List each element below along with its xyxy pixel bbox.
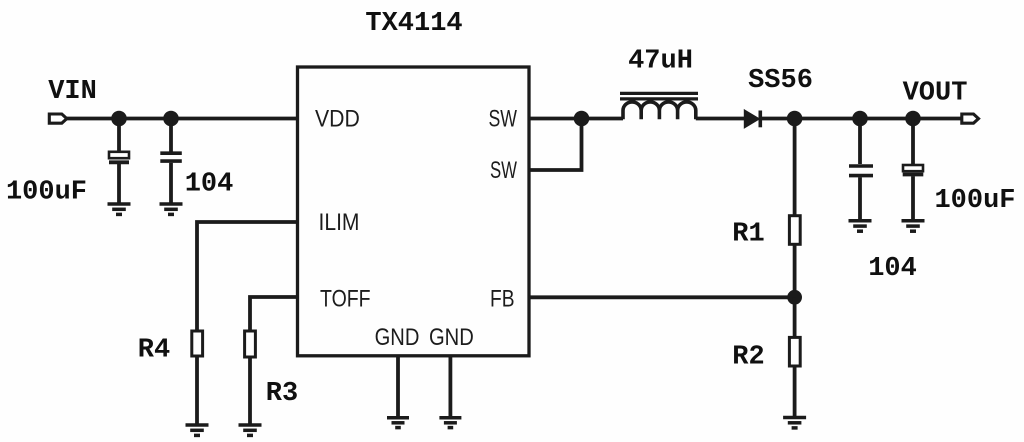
wire C4 to ground	[911, 176, 915, 219]
node SW rail junction	[574, 111, 590, 127]
svg-text:R4: R4	[138, 336, 170, 366]
wire TOFF pin to corner	[250, 297, 298, 331]
wire C3 tap down	[858, 119, 862, 165]
pin label TOFF	[320, 285, 371, 312]
ground (C3)	[849, 221, 872, 231]
svg-text:GND: GND	[375, 324, 420, 351]
pin label FB	[490, 285, 515, 312]
resistor R3	[245, 331, 256, 357]
ground (C1)	[108, 204, 131, 214]
diode D1 SS56	[745, 111, 761, 128]
connector VOUT terminal	[962, 114, 979, 123]
svg-text:47uH: 47uH	[628, 47, 693, 77]
pin label VDD	[315, 105, 360, 132]
node FB junction	[787, 290, 802, 305]
svg-text:104: 104	[868, 254, 917, 284]
wire diode to VOUT	[762, 117, 962, 121]
wire C4 tap down	[911, 119, 915, 165]
svg-text:TOFF: TOFF	[320, 285, 371, 312]
svg-text:SS56: SS56	[748, 66, 813, 96]
wire inductor to diode	[696, 117, 745, 121]
wire R2 to ground	[793, 366, 797, 416]
label R3	[266, 379, 298, 409]
wire C3 to ground	[858, 177, 862, 219]
label TX4114	[365, 9, 462, 39]
label R4	[138, 336, 170, 366]
inductor L1 47uH	[620, 93, 698, 119]
pin label ILIM	[319, 209, 360, 236]
svg-text:SW: SW	[490, 157, 517, 184]
wire R4 to ground	[195, 356, 199, 424]
svg-text:GND: GND	[429, 324, 474, 351]
svg-text:104: 104	[185, 170, 234, 200]
resistor R2	[789, 337, 800, 366]
node VIN rail junction 2	[163, 111, 179, 127]
wire junction1 down to C1	[117, 119, 121, 152]
label VOUT	[903, 79, 968, 109]
pin label SW (top)	[489, 105, 518, 132]
ground (R2)	[783, 418, 806, 428]
wire IC GND pin 2	[448, 356, 452, 416]
pin label GND (right)	[429, 324, 474, 351]
wire R3 to ground	[248, 357, 252, 424]
capacitor C1 100uF (polarized, input)	[109, 152, 129, 163]
wire C1 to ground	[117, 164, 121, 203]
svg-text:R1: R1	[732, 220, 764, 250]
label VIN	[48, 77, 97, 107]
label R1	[732, 220, 764, 250]
pin label GND (left)	[375, 324, 420, 351]
svg-text:VDD: VDD	[315, 105, 360, 132]
node output junction (C3 tap)	[852, 111, 868, 127]
wire ILIM pin to corner	[197, 222, 298, 331]
capacitor C4 100uF (polarized, output)	[903, 165, 924, 175]
svg-text:VOUT: VOUT	[903, 79, 968, 109]
label SS56	[748, 66, 813, 96]
ground (IC GND pin 1)	[387, 418, 409, 428]
capacitor C2 104 (input)	[160, 153, 182, 161]
op-amp U1 IC body TX4114	[298, 67, 530, 356]
wire SW1 to inductor	[529, 117, 623, 121]
ground (IC GND pin 2)	[439, 418, 461, 428]
wire SW2 pin up to SW rail	[529, 119, 582, 171]
ground (C4)	[902, 221, 925, 231]
wire IC GND pin 1	[396, 356, 400, 416]
wire VIN to VDD	[67, 117, 298, 121]
node output junction (R1 tap)	[787, 111, 803, 127]
value label 104 (output)	[868, 254, 917, 284]
svg-text:100uF: 100uF	[6, 178, 87, 208]
svg-text:FB: FB	[490, 285, 515, 312]
resistor R1	[789, 216, 800, 245]
label R2	[732, 343, 764, 373]
label 47uH	[628, 47, 693, 77]
wire FB pin to divider	[529, 295, 795, 299]
svg-text:R3: R3	[266, 379, 298, 409]
svg-text:R2: R2	[732, 343, 764, 373]
resistor R4	[192, 331, 203, 356]
ground (R4)	[186, 425, 209, 435]
connector VIN terminal	[49, 114, 67, 123]
pin label SW (second)	[490, 157, 517, 184]
svg-text:ILIM: ILIM	[319, 209, 360, 236]
svg-text:TX4114: TX4114	[365, 9, 462, 39]
ground (C2)	[160, 204, 183, 214]
value label 104 (input)	[185, 170, 234, 200]
wire C2 to ground	[169, 163, 173, 203]
wire output junction down to R1	[793, 119, 797, 216]
value label 100uF (input)	[6, 178, 87, 208]
svg-text:VIN: VIN	[48, 77, 97, 107]
node output junction (C4 tap)	[905, 111, 921, 127]
svg-text:SW: SW	[489, 105, 518, 132]
wire FB node down to R2	[793, 297, 797, 337]
wire junction2 down to C2	[169, 119, 173, 152]
wire R1 to FB node	[793, 244, 797, 297]
node VIN rail junction 1	[111, 111, 127, 127]
svg-text:100uF: 100uF	[934, 186, 1015, 216]
capacitor C3 104 (output)	[849, 166, 873, 176]
ground (R3)	[239, 425, 262, 435]
value label 100uF (output)	[934, 186, 1015, 216]
